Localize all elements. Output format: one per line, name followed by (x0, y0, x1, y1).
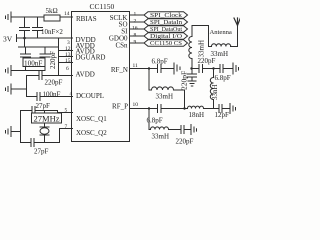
svg-text:3V: 3V (3, 35, 13, 44)
svg-text:33mH: 33mH (152, 133, 170, 141)
wire L4 down to RF_P line (184, 90, 186, 109)
wire vertical cap bus (26, 76, 28, 97)
junction node RF_N matching (190, 67, 192, 69)
tag SPI_Clock (144, 12, 188, 19)
wire SO stub pin 2 (130, 21, 144, 23)
ground G5 below C10 (188, 81, 196, 86)
resistor R1 5kΩ (44, 15, 60, 21)
svg-text:CC1150 CS: CC1150 CS (150, 40, 183, 47)
svg-text:SPI_Clock: SPI_Clock (150, 12, 183, 19)
svg-text:XOSC_Q2: XOSC_Q2 (76, 129, 107, 137)
capacitor C1 10nF (20, 17, 30, 38)
capacitor C6 100nF to DCOUPL pin 4 (27, 93, 73, 101)
svg-text:6.8pF: 6.8pF (152, 58, 168, 66)
wire ground G3 to cap bus (11, 88, 27, 90)
svg-text:CC1150: CC1150 (90, 2, 115, 11)
svg-text:27pF: 27pF (36, 102, 51, 110)
wire to XOSC_Q1 pin 5 (58, 111, 73, 113)
capacitor C2 10nF (33, 17, 43, 38)
svg-text:9: 9 (134, 40, 137, 46)
wire RF_N branch down (148, 69, 150, 91)
wire to XOSC_Q2 pin 7 (60, 129, 73, 143)
wire RF_P branch down (148, 109, 150, 130)
capacitor C8 27pF bottom (21, 139, 60, 147)
capacitor C7 27pF top (21, 107, 58, 115)
chip U1 CC1150 outline (72, 12, 130, 142)
wire decoupling rail (19, 46, 59, 48)
svg-text:6: 6 (66, 66, 69, 72)
svg-text:2: 2 (134, 19, 137, 25)
inductor L1 33mH vertical (189, 26, 192, 75)
junction on RF_P line (183, 107, 185, 109)
wire RF_P pin 10 (130, 108, 158, 110)
tag SPI_DataOut (144, 26, 188, 33)
wire resistor to RBIAS pin 14 (60, 16, 73, 18)
capacitor C13 6.8pF (158, 105, 185, 113)
svg-text:10: 10 (133, 102, 139, 108)
ground G7 end of RF line (230, 104, 236, 114)
svg-text:XOSC_Q1: XOSC_Q1 (76, 115, 107, 123)
svg-text:7: 7 (65, 124, 68, 130)
svg-text:220pF: 220pF (180, 71, 189, 90)
wire SI stub pin 16 (130, 28, 144, 30)
capacitor C3 100nF vertical (21, 47, 31, 71)
wire CSn stub pin 9 (130, 42, 144, 44)
junction RF_P branch (148, 107, 150, 109)
tag CC1150 CS (144, 40, 188, 47)
inductor L6 33mH horizontal bottom (149, 127, 180, 130)
tag SPI_DataIn (144, 19, 188, 26)
ground G6 right of C12 (233, 63, 239, 74)
junction dot 3V node (23, 37, 26, 40)
antenna ANT1 (234, 18, 241, 47)
ground G9 RF_N termination (174, 63, 180, 74)
wire stub DGUARD pin 15 (59, 62, 73, 64)
svg-text:SPI_DataIn: SPI_DataIn (150, 19, 182, 26)
svg-text:15: 15 (65, 58, 71, 64)
crystal Y1 (40, 111, 49, 143)
wire crystal left rail (20, 111, 22, 143)
wire power bus vertical (58, 38, 60, 76)
svg-text:6.8pF: 6.8pF (215, 74, 231, 82)
svg-text:DGUARD: DGUARD (76, 54, 106, 62)
svg-text:RF_P: RF_P (112, 103, 128, 111)
ground G3 (6, 84, 12, 94)
wire SCLK stub pin 1 (130, 14, 144, 16)
wire ground rail for C3 C4 (11, 70, 45, 72)
capacitor C12 6.8pF series (214, 65, 233, 73)
svg-text:5kΩ: 5kΩ (46, 7, 58, 15)
inductor L5 18nH horizontal (185, 106, 214, 108)
inductor L4 33mH horizontal (149, 87, 185, 90)
svg-text:AVDD: AVDD (76, 71, 95, 79)
label box 100nF (23, 58, 45, 67)
capacitor C5 220pF to AVDD pin 6 (27, 72, 73, 80)
svg-text:SPI_DataOut: SPI_DataOut (150, 26, 182, 33)
ground G2 mid-left (6, 66, 12, 76)
svg-text:33mH: 33mH (198, 40, 206, 58)
wire stub AVDD pin 12 (59, 50, 73, 52)
label box 27MHz (32, 113, 62, 123)
inductor L2 33mH horizontal (209, 44, 238, 47)
svg-text:5: 5 (65, 108, 68, 114)
svg-text:16: 16 (132, 26, 138, 32)
ground G8 bottom row (191, 125, 197, 135)
svg-text:RBIAS: RBIAS (76, 15, 97, 23)
capacitor C11 220pF series (192, 65, 214, 73)
svg-text:12pF: 12pF (215, 111, 230, 119)
svg-text:11: 11 (133, 63, 139, 69)
ground G1 top-left (6, 12, 12, 22)
wire ground G1 to resistor (11, 16, 44, 18)
ground G4 crystal (6, 127, 12, 137)
wire GDO0 stub pin 8 (130, 35, 144, 37)
svg-text:27pF: 27pF (34, 148, 49, 156)
svg-text:RF_N: RF_N (111, 66, 128, 74)
svg-text:220pF: 220pF (198, 57, 216, 65)
svg-text:DCOUPL: DCOUPL (76, 92, 104, 100)
capacitor C15 220pF bottom (181, 126, 190, 134)
svg-text:100nF: 100nF (43, 91, 61, 99)
svg-text:220pF: 220pF (45, 79, 63, 87)
svg-text:10nF×2: 10nF×2 (41, 28, 63, 36)
wire RF_N pin 11 (130, 68, 158, 70)
tag Digital I/O (144, 33, 188, 40)
junction RF_N branch (148, 67, 150, 69)
svg-text:14: 14 (64, 11, 70, 17)
wire bridge to antenna coil (192, 26, 209, 47)
svg-text:220pF: 220pF (176, 138, 194, 146)
svg-text:CSn: CSn (115, 42, 128, 50)
capacitor C4 220pF vertical (40, 47, 50, 71)
inductor L3 33nH vertical (210, 69, 213, 109)
junction node V2 top (212, 67, 214, 69)
svg-text:220pF: 220pF (49, 51, 57, 69)
svg-text:4: 4 (70, 91, 73, 97)
wire 3V rail to DVDD pin 3 (17, 35, 73, 42)
svg-text:33mH: 33mH (156, 93, 174, 101)
capacitor C14 12pF (214, 105, 230, 113)
svg-text:Antenna: Antenna (210, 29, 232, 36)
svg-text:1: 1 (134, 12, 137, 18)
svg-text:Digital I/O: Digital I/O (150, 33, 183, 40)
capacitor C9 6.8pF (158, 65, 174, 73)
capacitor C10 220pF shunt (188, 74, 197, 81)
svg-text:18nH: 18nH (189, 111, 205, 119)
wire stub AVDD pin 13 (59, 56, 73, 58)
svg-text:8: 8 (134, 33, 137, 39)
svg-text:100nF: 100nF (24, 59, 42, 67)
wire ground G4 to crystal rail (11, 131, 21, 133)
svg-text:27MHz: 27MHz (34, 115, 60, 124)
wire 3V node down to decoupling rail (24, 38, 26, 47)
svg-text:33nH: 33nH (211, 84, 219, 100)
